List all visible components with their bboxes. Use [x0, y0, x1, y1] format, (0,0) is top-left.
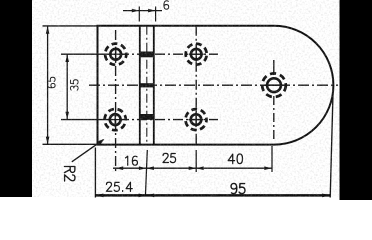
hole thread circle (broken): [186, 109, 207, 130]
hinge strip right line: [153, 26, 155, 145]
dim 16 text: [126, 156, 138, 165]
hole inner circle: [191, 114, 202, 125]
hinge strip left line: [139, 26, 141, 145]
right hole horizontal bar: [265, 84, 284, 86]
dim 16/25 shared arrows: [139, 166, 147, 170]
bottom hole row centerline: [101, 119, 218, 121]
hole inner circle: [191, 49, 202, 60]
hole thread circle (broken): [262, 73, 286, 97]
dim 35 text: [70, 80, 78, 91]
left black border bar: [0, 0, 32, 197]
dim 35 line: [66, 54, 68, 119]
extension below plate: plate left edge: [94, 148, 96, 198]
R2 leader arrowhead: [98, 139, 105, 145]
hole thread circle (broken): [105, 44, 126, 65]
dim 6 arrow 1: [132, 9, 139, 13]
main horizontal centerline: [89, 84, 338, 86]
dim 6 extension left: [138, 7, 140, 22]
hole inner circle: [110, 49, 121, 60]
dim 40 right arrow: [264, 166, 272, 170]
dim 25.4/95 shared arrows: [139, 194, 147, 198]
middle hole column centerline: [195, 26, 197, 145]
dim 25/40 shared arrows: [189, 166, 197, 170]
strip dark band mid: [139, 83, 155, 87]
hole thread circle (broken): [105, 109, 126, 130]
plate outline: [98, 26, 334, 145]
hole centermark crossing: [108, 53, 123, 55]
extension below plate: right hole column: [271, 146, 273, 172]
dim 6 arrow 2: [148, 9, 155, 13]
dim row 16/25/40 line: [113, 167, 272, 169]
R2 leader line: [72, 140, 104, 162]
hole centermark crossing: [189, 119, 204, 121]
top hole row extension (solid): [61, 53, 101, 55]
strip dark band top row: [139, 52, 155, 58]
dim 6 extension right: [155, 7, 157, 22]
dim 65 text: [47, 77, 55, 88]
dim 35 arrow down: [65, 112, 69, 120]
dim 6 line: [123, 10, 162, 12]
dim 65 arrow down: [46, 137, 50, 145]
hole centermark crossing: [189, 53, 204, 55]
right black border bar: [340, 0, 372, 202]
dim 65 extension top: [43, 25, 99, 27]
dim 65 arrow up: [46, 26, 50, 34]
dim 40 text: [228, 154, 242, 164]
dim 95 right arrow: [322, 194, 330, 198]
right hole column centerline below: [273, 96, 275, 140]
dim 6 text: [164, 1, 169, 9]
left hole column centerline: [115, 30, 117, 171]
hinge pin centerline: [146, 26, 148, 145]
right hole column centerline above: [273, 60, 275, 75]
strip dark band bottom row: [139, 114, 155, 120]
dim 25.4 left arrow: [96, 194, 104, 198]
dim 25.4 text: [106, 182, 132, 191]
hole inner circle: [110, 114, 121, 125]
dim row 25.4/95 line (thick): [95, 194, 330, 197]
top hole row centerline: [101, 53, 218, 55]
extension below plate: hinge center: [145, 150, 147, 197]
dim 65 line: [47, 26, 49, 144]
hole inner circle: [267, 78, 281, 92]
dim 16 left arrow: [116, 166, 124, 170]
dim 25 text: [163, 153, 176, 162]
hole centermark crossing: [108, 119, 123, 121]
hole thread circle (broken): [186, 44, 207, 65]
dim 95 text: [231, 183, 245, 193]
extension below plate: middle hole column: [195, 150, 197, 172]
extension: arc right tangent: [330, 86, 333, 198]
dim 35 arrow up: [65, 54, 69, 62]
paper grain overlay: [32, 0, 340, 197]
R2 text: [64, 167, 75, 182]
bottom hole row extension (solid): [61, 119, 101, 121]
dim 65 extension bottom: [43, 143, 98, 145]
